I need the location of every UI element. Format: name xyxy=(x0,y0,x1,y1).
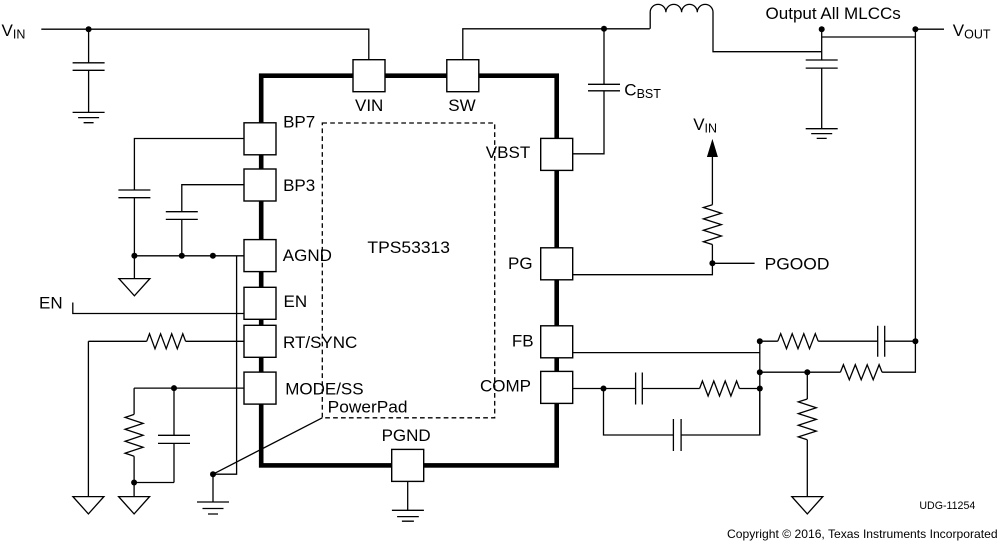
svg-text:MODE/SS: MODE/SS xyxy=(285,380,363,399)
svg-text:EN: EN xyxy=(39,294,63,313)
svg-text:RT/SYNC: RT/SYNC xyxy=(283,333,357,352)
svg-text:PG: PG xyxy=(508,254,533,273)
pin box BP7 xyxy=(244,123,276,155)
capacitor C-SS xyxy=(158,388,190,482)
wire feedback mid branch xyxy=(760,341,916,372)
wire PowerPad pointer xyxy=(213,418,322,474)
node junction AGND xyxy=(210,253,216,259)
pin box COMP xyxy=(541,371,573,403)
wire R-SS bottom xyxy=(134,456,174,496)
node junction PGOOD xyxy=(709,260,715,266)
pin box RT/SYNC xyxy=(244,325,276,357)
capacitor C-BP7 xyxy=(118,190,150,256)
svg-text:UDG-11254: UDG-11254 xyxy=(919,500,975,512)
svg-text:Output All MLCCs: Output All MLCCs xyxy=(766,4,901,23)
node junction PowerPad gnd xyxy=(210,471,216,477)
wire BP3 branch xyxy=(182,185,245,212)
capacitor C-COMP2 xyxy=(673,419,681,451)
capacitor C-COMP1 xyxy=(636,373,643,405)
capacitor CBST xyxy=(573,84,620,154)
pin box MODE/SS xyxy=(244,372,276,404)
node junction Rdiv xyxy=(804,369,810,375)
wire divider lower xyxy=(806,372,808,399)
node junction VOUT xyxy=(912,26,918,32)
node junction COMP xyxy=(601,386,607,392)
wire COMP lower branch xyxy=(604,389,760,436)
wire COMP network xyxy=(573,388,760,390)
svg-text:SW: SW xyxy=(448,96,475,115)
ground triangle (SS) xyxy=(119,497,150,514)
ground earth (output cap) xyxy=(806,129,838,139)
svg-text:FB: FB xyxy=(512,331,534,350)
wire FB to divider node xyxy=(573,341,760,435)
resistor R-FB2 xyxy=(840,365,882,380)
wire AGND to PowerPad ground xyxy=(213,256,237,502)
pin box VIN xyxy=(353,60,385,92)
capacitor C-OUT xyxy=(806,60,838,129)
wire AGND rail xyxy=(134,256,244,279)
pin box FB xyxy=(541,326,573,358)
pin box SW xyxy=(447,60,479,92)
svg-text:VBST: VBST xyxy=(486,143,530,162)
svg-text:VIN: VIN xyxy=(355,96,383,115)
pin box VBST xyxy=(541,138,573,170)
wire output node verticals xyxy=(822,29,944,341)
resistor R-COMP xyxy=(700,381,740,396)
node junction BP7 cap xyxy=(131,253,137,259)
pin box PG xyxy=(541,248,573,280)
wire R-DIV to gnd xyxy=(806,440,808,497)
resistor R-FB1 xyxy=(778,334,818,349)
resistor R-DIV xyxy=(798,399,816,440)
inductor L1 xyxy=(650,4,822,51)
capacitor C-FF xyxy=(878,326,885,357)
wire SW to inductor xyxy=(463,29,650,60)
wire BP7 branch xyxy=(134,139,244,191)
ground earth (PowerPad) xyxy=(197,502,229,514)
ground triangle (AGND) xyxy=(119,279,150,296)
resistor R-RT xyxy=(147,334,186,349)
node junction FB comp xyxy=(757,386,763,392)
svg-text:PGOOD: PGOOD xyxy=(765,255,830,274)
resistor R-SS xyxy=(125,414,143,456)
wire VIN input rail xyxy=(41,29,369,60)
capacitor C-IN xyxy=(73,63,105,113)
wire input cap branch xyxy=(88,29,90,63)
svg-text:AGND: AGND xyxy=(283,246,332,265)
wire MODE/SS rail xyxy=(134,388,244,414)
node junction VIN rail xyxy=(86,26,92,32)
node junction FB top xyxy=(757,338,763,344)
ground earth (PGND) xyxy=(392,510,424,521)
svg-text:BP7: BP7 xyxy=(283,112,315,131)
arrow VIN pullup xyxy=(711,148,713,205)
node junction MODE cap xyxy=(171,385,177,391)
svg-text:TPS53313: TPS53313 xyxy=(367,238,450,257)
node junction SS xyxy=(131,480,137,486)
ground triangle (RT) xyxy=(73,497,104,514)
svg-text:PowerPad: PowerPad xyxy=(328,397,408,416)
PowerPad dashed boundary xyxy=(322,123,494,418)
node junction BP3 cap xyxy=(179,253,185,259)
svg-text:PGND: PGND xyxy=(382,426,431,445)
capacitor C-BP3 xyxy=(166,212,198,256)
node junction FB mid xyxy=(757,369,763,375)
ground triangle (divider) xyxy=(792,497,823,514)
node junction SW/CBST xyxy=(601,26,607,32)
svg-text:EN: EN xyxy=(284,292,308,311)
svg-text:Copyright © 2016, Texas Instru: Copyright © 2016, Texas Instruments Inco… xyxy=(727,527,998,541)
wire PGOOD node xyxy=(573,245,755,275)
svg-text:BP3: BP3 xyxy=(283,176,315,195)
pin box EN xyxy=(244,287,276,319)
wire EN input xyxy=(73,303,245,314)
IC U1 TPS53313 body outline xyxy=(261,76,557,466)
wire RT/SYNC left xyxy=(88,341,244,496)
wire feedback top branch xyxy=(760,340,916,342)
node junction VOUT divider xyxy=(912,338,918,344)
pin box PGND xyxy=(392,449,424,481)
wire CBST branch xyxy=(603,29,605,85)
ground earth (input cap) xyxy=(73,112,105,122)
pin box BP3 xyxy=(244,169,276,201)
svg-text:COMP: COMP xyxy=(480,377,531,396)
wire PGND to ground xyxy=(407,481,409,510)
node junction output cap xyxy=(819,26,825,32)
resistor R-PGOOD xyxy=(703,205,721,245)
pin box AGND xyxy=(244,240,276,272)
